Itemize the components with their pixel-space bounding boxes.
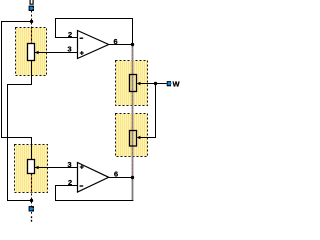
highlight box around R1 (top-left potentiometer) [16, 28, 47, 76]
cut-off symbol above top port [30, 0, 33, 4]
wire: top op-amp output [109, 44, 133, 46]
potentiometer R2 body [28, 160, 39, 174]
highlight box around R4 (bottom-right potentiometer) [116, 114, 148, 157]
svg-text:6: 6 [114, 169, 118, 178]
bottom port marker (blue tag) [29, 206, 34, 211]
cut-off symbol below bottom port [31, 216, 33, 223]
W port label [173, 79, 181, 88]
op-amp U1 (top) [78, 31, 109, 59]
wire: R2 wiper to bottom op-amp pin 3 [35, 167, 78, 169]
junction top op-amp output [131, 43, 134, 46]
wire: R1 wiper to top op-amp pin 3 [35, 52, 78, 54]
op-amp U2 (bottom) [78, 163, 109, 193]
wire: W node to R3 wiper and R4 wiper [139, 84, 167, 138]
wire: selected dashed net from R2 bottom terminal down to bottom port [31, 174, 33, 215]
potentiometer R3 body [130, 75, 141, 92]
svg-text:2: 2 [68, 30, 72, 39]
wire: top op-amp feedback loop output to pin 2 [56, 19, 133, 45]
op-amp U2 pin labels [68, 160, 119, 187]
W port marker (blue dot) [167, 81, 171, 86]
junction node B top [30, 20, 33, 23]
wire: selected dashed net from top port B down into R1 top terminal [31, 11, 33, 44]
junction bottom node [30, 199, 33, 202]
svg-text:3: 3 [68, 44, 72, 53]
svg-text:3: 3 [68, 160, 72, 169]
highlight box around R3 (top-right potentiometer) [116, 61, 148, 106]
highlight box around R2 (bottom-left potentiometer) [15, 145, 48, 193]
svg-text:2: 2 [68, 178, 72, 187]
wire: R1 bottom terminal jog down to bottom node [8, 61, 32, 201]
wire: bottom op-amp feedback loop output to pin 2 [56, 186, 134, 201]
op-amp U1 pin labels [68, 30, 118, 54]
potentiometer R1 body [28, 44, 39, 61]
wire: bottom op-amp output [109, 177, 133, 179]
wire: node B left branch to R2 top terminal [2, 22, 32, 160]
top port marker (blue tag) [29, 6, 34, 11]
svg-text:W: W [173, 79, 181, 88]
wire: gray net from top op-amp output down through R3 and R4 to bottom op-amp output [132, 45, 134, 201]
svg-text:6: 6 [114, 37, 118, 46]
potentiometer R4 body [130, 131, 141, 147]
junction bottom op-amp output [131, 176, 134, 179]
junction W node [154, 82, 157, 85]
